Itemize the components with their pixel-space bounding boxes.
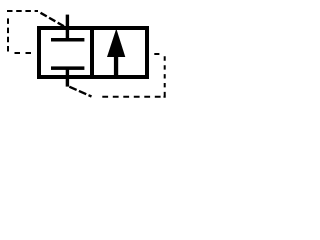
flow arrow stem — [114, 55, 118, 77]
pilot line right horizontal stub (dashed) — [154, 53, 159, 55]
pilot line right vertical (dashed) — [164, 56, 166, 97]
flow arrow head — [107, 29, 125, 57]
pilot line left vertical (dashed) — [7, 16, 9, 52]
pilot line top diagonal (dashed) — [41, 13, 65, 26]
pilot line bottom-left horizontal (dashed) — [14, 52, 32, 54]
pilot line bottom diagonal (dashed) — [69, 87, 91, 97]
blocked port symbol top (T plate) — [51, 38, 84, 42]
blocked port symbol bottom (T plate) — [51, 66, 84, 70]
pilot line bottom-right horizontal (dashed) — [99, 96, 166, 98]
bottom port line P2 — [66, 67, 69, 87]
position divider wire — [90, 26, 94, 79]
top port line P1 — [66, 15, 69, 42]
valve body outline (two-position valve V1) — [39, 28, 147, 77]
pilot line top-left horizontal (dashed) — [7, 10, 38, 12]
